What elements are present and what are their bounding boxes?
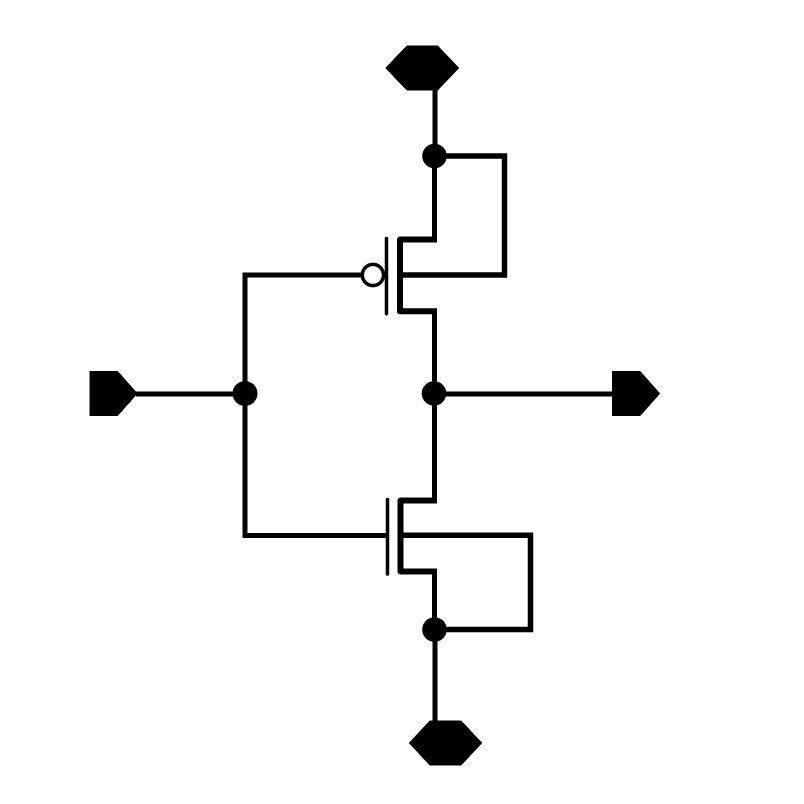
transistor M1 pMos-4 port body (source stub, channel bar, drain stub) [400, 240, 437, 312]
transistor M1 gate line [385, 239, 389, 314]
transistor M2 nMos-4 port body (drain stub, channel bar, source stub) [401, 501, 438, 572]
node J4 (ground net junction) [422, 617, 447, 642]
transistor M1 gate bubble [362, 264, 383, 285]
wire VDD hexagon to node J1 [433, 88, 438, 156]
wire J1 down to PMOS source stub [432, 156, 437, 240]
wire J1 to PMOS bulk (right loop) [403, 156, 505, 275]
wire input tag to node J2 [136, 392, 245, 397]
node J2 (input junction) [233, 381, 258, 406]
input export A (pentagon tag) [90, 372, 137, 416]
wire J4 to GND hexagon [433, 630, 438, 723]
ground export GND (hexagon) [410, 721, 482, 765]
output export Y (pentagon tag) [613, 372, 660, 416]
wire output node to output tag [434, 392, 614, 397]
wire PMOS drain down to output node [432, 311, 437, 393]
wire M1 gate to input column, down input column, to M2 gate [245, 275, 387, 536]
node J3 (output junction) [422, 381, 447, 406]
wire M2 source down to node J4 [432, 572, 437, 630]
node J1 (VDD net junction) [422, 144, 447, 169]
wire output node down to NMOS drain stub [432, 394, 437, 501]
wire M2 bulk to bottom node (right loop) [403, 535, 531, 629]
transistor M2 gate line [386, 500, 390, 575]
power export VDD (hexagon) [386, 46, 459, 90]
